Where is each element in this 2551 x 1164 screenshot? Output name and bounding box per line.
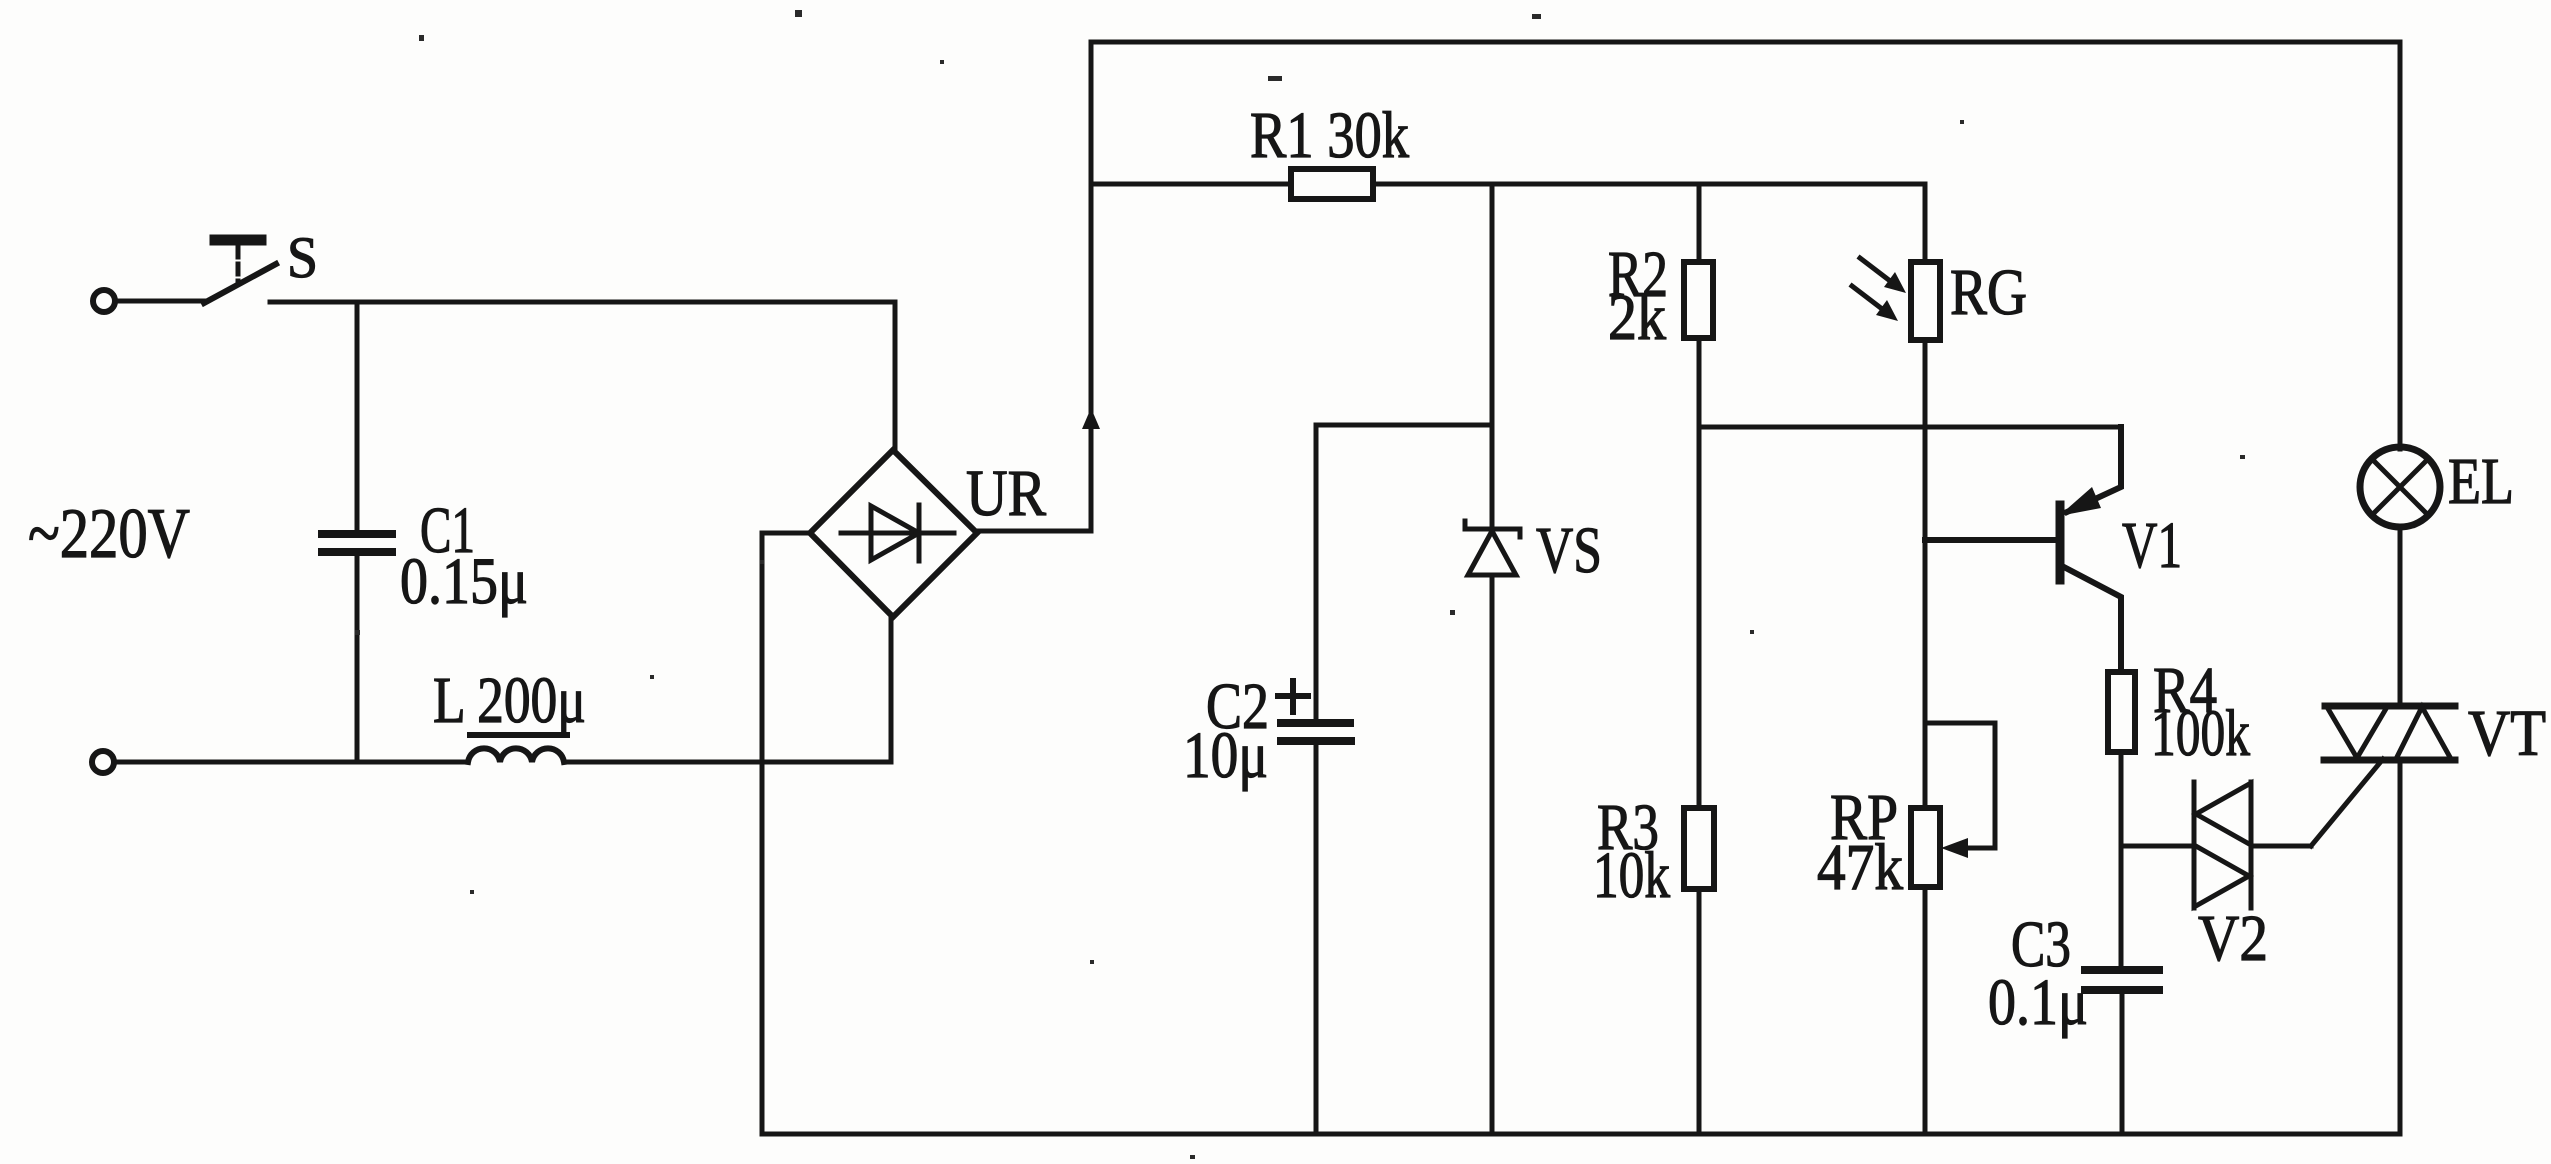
svg-text:0.15μ: 0.15μ	[400, 545, 528, 618]
resistor R1	[1291, 169, 1373, 199]
wire	[564, 760, 891, 765]
svg-text:VS: VS	[1536, 514, 1602, 587]
wire	[2119, 752, 2124, 966]
wire	[1923, 887, 1928, 1134]
svg-text:EL: EL	[2448, 445, 2514, 518]
wire	[1697, 889, 1702, 1134]
wire	[977, 529, 1091, 534]
svg-text:10k: 10k	[1593, 839, 1670, 912]
wire	[1490, 575, 1495, 1134]
svg-text:10μ: 10μ	[1183, 719, 1268, 792]
svg-text:R1 30k: R1 30k	[1250, 99, 1409, 172]
svg-text:~220V: ~220V	[28, 495, 190, 573]
svg-text:V2: V2	[2198, 902, 2268, 975]
diac V2	[2194, 782, 2251, 908]
wire RG branch	[1923, 184, 1928, 262]
wire C2 top link	[1316, 423, 1492, 428]
wire bottom rail	[762, 1132, 2400, 1137]
light arrow	[1852, 286, 1898, 321]
svg-text:V1: V1	[2122, 509, 2182, 582]
transistor V1	[1925, 427, 2121, 672]
scan specks	[355, 10, 2245, 1159]
inductor L	[468, 748, 564, 762]
capacitor C2	[1278, 425, 1351, 1134]
resistor R4	[2108, 672, 2135, 752]
resistor R2	[1684, 262, 1713, 338]
svg-text:VT: VT	[2468, 697, 2546, 770]
svg-text:RG: RG	[1950, 256, 2027, 329]
current arrow	[1082, 408, 1100, 429]
wire	[2398, 527, 2403, 706]
potentiometer RP	[1911, 808, 1940, 887]
svg-text:L 200μ: L 200μ	[433, 664, 586, 737]
terminal lower left	[92, 751, 114, 773]
wire	[760, 533, 765, 1134]
bridge rectifier UR	[810, 450, 977, 617]
zener diode VS	[1465, 521, 1520, 575]
wire R2 branch	[1697, 184, 1702, 262]
svg-text:S: S	[287, 225, 318, 290]
lamp EL	[2360, 447, 2440, 527]
svg-text:2k: 2k	[1608, 281, 1666, 354]
wire mid bus	[1699, 425, 2121, 430]
svg-text:UR: UR	[966, 457, 1046, 530]
wire	[115, 760, 468, 765]
wire	[762, 531, 810, 536]
wiper of RP	[1925, 723, 1995, 858]
svg-text:47k: 47k	[1817, 831, 1903, 904]
wire	[1697, 338, 1702, 808]
light arrow	[1860, 258, 1906, 293]
wire	[270, 300, 895, 305]
triac VT	[2324, 706, 2455, 760]
wire	[116, 299, 206, 304]
wire R1 rail	[1091, 182, 1925, 187]
wire VS branch	[1490, 184, 1495, 529]
wire	[2398, 42, 2403, 449]
terminal upper left	[93, 290, 115, 312]
wire	[1089, 42, 1094, 531]
switch S	[204, 240, 276, 303]
wire top rail	[1091, 40, 2400, 45]
wire	[889, 615, 894, 762]
wire	[893, 302, 898, 452]
resistor R3	[1684, 808, 1714, 889]
wire	[2398, 760, 2403, 1134]
underline of L value	[467, 732, 570, 738]
wire	[1923, 340, 1928, 808]
capacitor C3	[2085, 970, 2159, 1134]
wire gate	[2311, 759, 2383, 846]
wire	[2121, 844, 2194, 849]
wire	[2251, 844, 2311, 849]
svg-text:100k: 100k	[2151, 697, 2250, 770]
photoresistor RG	[1911, 262, 1940, 340]
svg-text:0.1μ: 0.1μ	[1988, 966, 2088, 1039]
capacitor C1	[322, 302, 392, 762]
